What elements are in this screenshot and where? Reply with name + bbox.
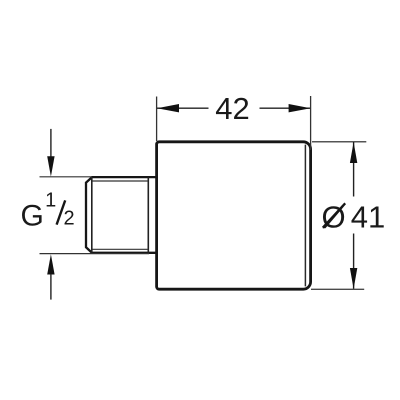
dim D41: top extension line	[312, 141, 366, 143]
dim G1/2: bottom arrow stem	[50, 274, 52, 300]
svg-text:41: 41	[351, 199, 385, 234]
thread minor diameter line (bottom)	[93, 248, 149, 250]
dim G1/2: bottom extension line	[40, 253, 150, 255]
nipple thread-end line	[147, 177, 149, 253]
svg-text:G: G	[21, 199, 44, 232]
svg-text:42: 42	[215, 91, 249, 126]
tangent edge line on right of body	[304, 145, 306, 287]
dim 42: left extension line	[156, 97, 158, 142]
dim 42: dimension line right segment	[260, 107, 311, 109]
svg-text:1: 1	[45, 190, 56, 212]
dim 42: left arrowhead	[157, 104, 179, 112]
body outline (main cylinder, side view)	[157, 142, 311, 289]
dim G1/2: label fraction slash	[57, 200, 66, 224]
dim 42: right extension line	[310, 96, 312, 150]
dim D41: bottom arrowhead (pointing down)	[350, 268, 357, 289]
thread minor diameter line (top)	[93, 180, 149, 182]
dim D41: diameter symbol slash overstroke	[323, 203, 345, 227]
threaded nipple outline	[86, 177, 157, 253]
dim D41: bottom extension line	[311, 288, 364, 290]
dim D41: top arrowhead (pointing up)	[350, 142, 357, 163]
dim D41: dimension line top segment	[353, 142, 355, 197]
dim D41: dimension line bottom segment	[353, 234, 355, 289]
dim 42: dimension line left segment	[157, 107, 209, 109]
dim 42: right arrowhead	[289, 104, 311, 112]
nipple chamfer edge line	[91, 177, 93, 253]
dim G1/2: top extension line	[40, 176, 93, 178]
dim G1/2: top arrow stem	[50, 129, 52, 158]
dim G1/2: top arrowhead (pointing down)	[47, 156, 54, 176]
dim G1/2: bottom arrowhead (pointing up)	[47, 254, 54, 274]
svg-text:2: 2	[63, 207, 74, 229]
